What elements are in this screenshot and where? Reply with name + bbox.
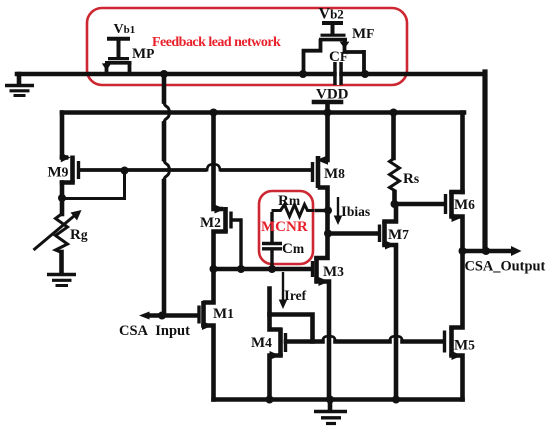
svg-text:Rg: Rg xyxy=(70,227,88,243)
svg-text:Iref: Iref xyxy=(284,288,307,304)
svg-text:M2: M2 xyxy=(200,215,221,231)
svg-text:M3: M3 xyxy=(323,264,344,280)
svg-text:M8: M8 xyxy=(324,166,345,182)
svg-text:Ibias: Ibias xyxy=(341,204,370,220)
svg-text:M5: M5 xyxy=(454,338,475,354)
svg-text:M1: M1 xyxy=(213,306,234,322)
svg-text:M6: M6 xyxy=(454,197,475,213)
svg-text:Vb2: Vb2 xyxy=(319,6,344,23)
svg-text:CF: CF xyxy=(329,49,348,65)
svg-text:Rm: Rm xyxy=(278,193,301,209)
svg-text:MCNR: MCNR xyxy=(261,219,308,235)
svg-text:Rs: Rs xyxy=(403,171,419,187)
svg-text:VDD: VDD xyxy=(316,87,349,103)
svg-text:Vb1: Vb1 xyxy=(114,22,136,37)
svg-text:Feedback lead network: Feedback lead network xyxy=(152,35,281,50)
svg-text:MF: MF xyxy=(352,26,374,42)
svg-text:M7: M7 xyxy=(388,227,409,243)
svg-text:M9: M9 xyxy=(48,165,69,181)
svg-text:M4: M4 xyxy=(251,335,272,351)
svg-text:Cm: Cm xyxy=(282,241,305,257)
svg-text:CSA_Output: CSA_Output xyxy=(465,259,546,275)
svg-text:CSA Input: CSA Input xyxy=(119,323,190,339)
